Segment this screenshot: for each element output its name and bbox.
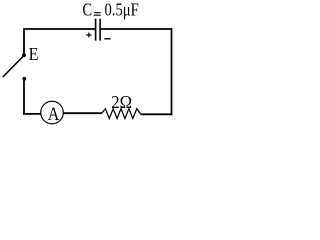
resistor R zigzag: [102, 109, 141, 119]
switch S bottom terminal node: [22, 77, 26, 81]
switch S blade (open): [3, 56, 24, 78]
capacitor C left plate: [95, 19, 97, 41]
wire bottom-right segment (resistor to corner): [141, 113, 173, 115]
capacitor C right plate: [99, 19, 101, 41]
wire top-right segment (from capacitor): [101, 28, 172, 30]
wire left upper segment (corner to switch): [23, 28, 25, 55]
wire left lower segment (switch to corner): [23, 79, 25, 115]
wire top-left segment (to capacitor): [24, 28, 95, 30]
switch S top terminal node: [22, 53, 26, 57]
wire right side: [171, 28, 173, 115]
svg-text:C: C: [82, 0, 92, 19]
capacitor value label: equals sign: [94, 13, 101, 16]
svg-text:2Ω: 2Ω: [111, 92, 132, 112]
capacitor - polarity mark: [104, 38, 111, 40]
ammeter circle: [41, 101, 64, 124]
svg-text:A: A: [48, 104, 60, 125]
svg-text:E: E: [29, 44, 39, 64]
wire bottom-left segment (corner to ammeter): [23, 113, 41, 115]
capacitor + polarity mark: [86, 33, 91, 38]
svg-text:0.5μF: 0.5μF: [105, 0, 139, 19]
wire ammeter to resistor: [63, 112, 101, 114]
